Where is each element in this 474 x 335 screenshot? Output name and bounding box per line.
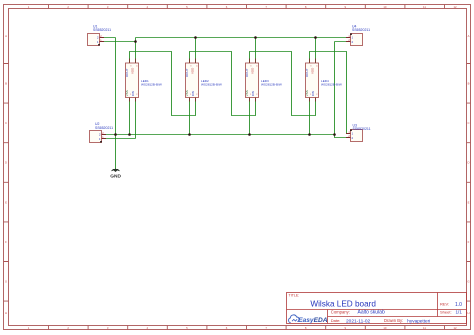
svg-text:SS6520211: SS6520211 (93, 28, 111, 32)
svg-text:DOUT: DOUT (245, 68, 249, 77)
svg-text:WS2812B-B/W: WS2812B-B/W (141, 82, 162, 86)
svg-text:DOUT: DOUT (125, 68, 129, 77)
svg-text:VDD: VDD (250, 67, 254, 74)
svg-text:1/1: 1/1 (456, 310, 463, 315)
svg-text:WS2812B-B/W: WS2812B-B/W (321, 82, 342, 86)
svg-text:VSS: VSS (125, 90, 129, 96)
svg-text:Wilska LED board: Wilska LED board (310, 300, 376, 309)
svg-text:VSS: VSS (245, 90, 249, 96)
svg-text:Drawn By:: Drawn By: (384, 318, 403, 323)
svg-text:SS6520211: SS6520211 (95, 126, 113, 130)
svg-text:E: E (5, 200, 7, 204)
svg-text:H: H (467, 311, 469, 315)
svg-text:DIN: DIN (131, 91, 135, 96)
svg-text:B: B (468, 82, 470, 86)
svg-text:C: C (5, 121, 7, 125)
svg-text:DOUT: DOUT (305, 68, 309, 77)
svg-text:2021-11-02: 2021-11-02 (346, 318, 371, 324)
svg-text:VDD: VDD (130, 67, 134, 74)
svg-text:WS2812B-B/W: WS2812B-B/W (201, 82, 222, 86)
svg-text:D: D (467, 161, 469, 165)
svg-text:Aalto skulab: Aalto skulab (358, 309, 385, 315)
svg-text:SS6520211: SS6520211 (353, 127, 371, 131)
svg-text:12: 12 (453, 326, 457, 330)
svg-text:REV:: REV: (440, 302, 449, 307)
svg-text:DOUT: DOUT (185, 68, 189, 77)
svg-text:G: G (5, 280, 7, 284)
svg-text:F: F (468, 240, 470, 244)
svg-text:TITLE:: TITLE: (289, 293, 300, 297)
svg-text:Sheet:: Sheet: (440, 309, 452, 314)
svg-text:B: B (5, 82, 7, 86)
svg-text:VSS: VSS (305, 90, 309, 96)
svg-text:WS2812B-B/W: WS2812B-B/W (261, 82, 282, 86)
svg-text:DIN: DIN (191, 91, 195, 96)
svg-text:Date:: Date: (331, 318, 341, 323)
svg-text:1.0: 1.0 (455, 302, 462, 308)
svg-text:11: 11 (423, 326, 426, 330)
svg-text:DIN: DIN (311, 91, 315, 96)
svg-text:EasyEDA: EasyEDA (298, 317, 328, 324)
svg-text:G: G (467, 280, 469, 284)
svg-text:VSS: VSS (185, 90, 189, 96)
svg-text:E: E (468, 200, 470, 204)
svg-text:GND: GND (110, 174, 121, 180)
svg-text:12: 12 (453, 5, 457, 9)
svg-text:hyvapetteri: hyvapetteri (407, 318, 430, 323)
svg-text:Company:: Company: (331, 310, 350, 315)
svg-text:VDD: VDD (310, 67, 314, 74)
svg-text:A: A (5, 34, 7, 38)
svg-text:SS6520211: SS6520211 (352, 28, 370, 32)
svg-text:VDD: VDD (190, 67, 194, 74)
svg-text:DIN: DIN (251, 91, 255, 96)
svg-text:F: F (5, 240, 7, 244)
svg-text:10: 10 (383, 326, 387, 330)
svg-text:A: A (468, 34, 470, 38)
svg-text:D: D (5, 161, 7, 165)
svg-text:C: C (467, 121, 469, 125)
svg-text:H: H (5, 311, 7, 315)
svg-text:11: 11 (423, 5, 426, 9)
svg-text:10: 10 (383, 5, 387, 9)
